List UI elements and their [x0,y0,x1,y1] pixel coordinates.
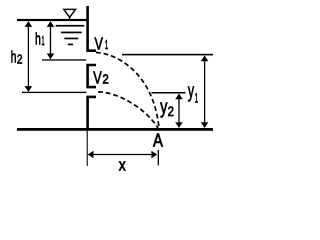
svg-text:2: 2 [102,72,108,87]
water shading line 3 [64,38,78,40]
svg-text:1: 1 [42,33,45,48]
svg-text:A: A [153,131,163,151]
label h1 [35,31,45,49]
svg-text:y: y [188,81,194,103]
svg-text:h: h [11,49,17,67]
water surface line [17,19,88,21]
tank wall upper segment [88,6,96,51]
jet trajectory from orifice 2 (dashed) [96,92,158,128]
y2 dimension arrow [175,94,183,129]
x dimension arrow [88,151,158,159]
free-surface nabla symbol [64,9,76,19]
svg-text:V: V [93,68,102,88]
jet trajectory from orifice 1 (dashed) [96,53,159,129]
svg-text:2: 2 [17,51,23,66]
label h2 [11,49,23,67]
label y1 [188,81,198,106]
h1 dimension arrow [47,21,55,59]
x-dimension left extension line [86,131,88,166]
y1 reference line [122,54,213,56]
svg-text:x: x [119,156,126,174]
water shading line 1 [56,25,85,27]
svg-text:1: 1 [105,38,108,52]
tank wall middle segment (between orifices) [88,65,96,87]
orifice 1 level line (h1 datum) [42,59,86,60]
h2 dimension arrow [25,21,33,92]
svg-text:h: h [35,31,41,49]
y1 dimension arrow [201,55,209,128]
label V2 [93,68,109,88]
label y2 [160,97,174,119]
ground line [17,128,213,131]
water shading line 2 [61,32,82,34]
svg-text:1: 1 [195,90,198,106]
tank wall lower segment [88,97,96,130]
y2 reference line [152,92,186,94]
water shading line 4 [68,44,73,46]
svg-text:2: 2 [168,103,174,119]
svg-text:V: V [95,33,103,53]
orifice 2 level line (h2 datum) [22,92,86,93]
label V1 [95,33,109,53]
x-dimension right tick [157,150,159,165]
svg-text:y: y [160,97,167,119]
